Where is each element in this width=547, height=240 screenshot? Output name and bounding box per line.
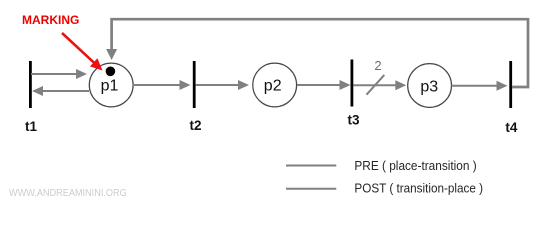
svg-text:t2: t2 bbox=[190, 118, 202, 133]
svg-text:p2: p2 bbox=[264, 78, 282, 95]
arc t2->p2 (POST) bbox=[196, 80, 250, 90]
svg-text:p3: p3 bbox=[420, 78, 438, 95]
place p1 (circle) bbox=[89, 63, 133, 107]
transition t4 (bar) bbox=[509, 61, 512, 108]
legend POST line bbox=[286, 188, 336, 190]
svg-text:t4: t4 bbox=[505, 120, 517, 135]
arc t4->p1 feedback loop (POST) bbox=[106, 19, 528, 87]
arc p3->t4 (PRE) bbox=[452, 81, 508, 91]
transition t3 (bar) bbox=[351, 60, 354, 107]
marking pointer arrow (red) bbox=[62, 33, 103, 71]
svg-text:t3: t3 bbox=[348, 113, 360, 128]
svg-text:WWW.ANDREAMININI.ORG: WWW.ANDREAMININI.ORG bbox=[9, 188, 127, 199]
place p2 (circle) bbox=[253, 63, 297, 107]
svg-text:2: 2 bbox=[374, 58, 381, 73]
transition t2 (bar) bbox=[193, 61, 196, 108]
token in p1 bbox=[106, 67, 116, 77]
svg-text:PRE ( place-transition ): PRE ( place-transition ) bbox=[354, 159, 476, 173]
arc p1->t1 (POST) bbox=[32, 86, 89, 96]
transition t1 (bar) bbox=[29, 61, 32, 108]
arc t3->p3 (POST) with weight bbox=[354, 80, 407, 90]
weight slash on arc t3->p3 bbox=[367, 75, 385, 95]
svg-text:MARKING: MARKING bbox=[22, 13, 79, 27]
svg-text:p1: p1 bbox=[101, 78, 119, 95]
arc p2->t3 (PRE) bbox=[297, 80, 351, 90]
svg-text:POST ( transition-place ): POST ( transition-place ) bbox=[354, 182, 483, 196]
legend PRE line bbox=[286, 165, 336, 167]
arc p1->t2 (PRE) bbox=[133, 80, 191, 90]
arc t1->p1 (PRE) bbox=[31, 69, 87, 79]
place p3 (circle) bbox=[408, 64, 452, 108]
svg-text:t1: t1 bbox=[25, 119, 37, 134]
